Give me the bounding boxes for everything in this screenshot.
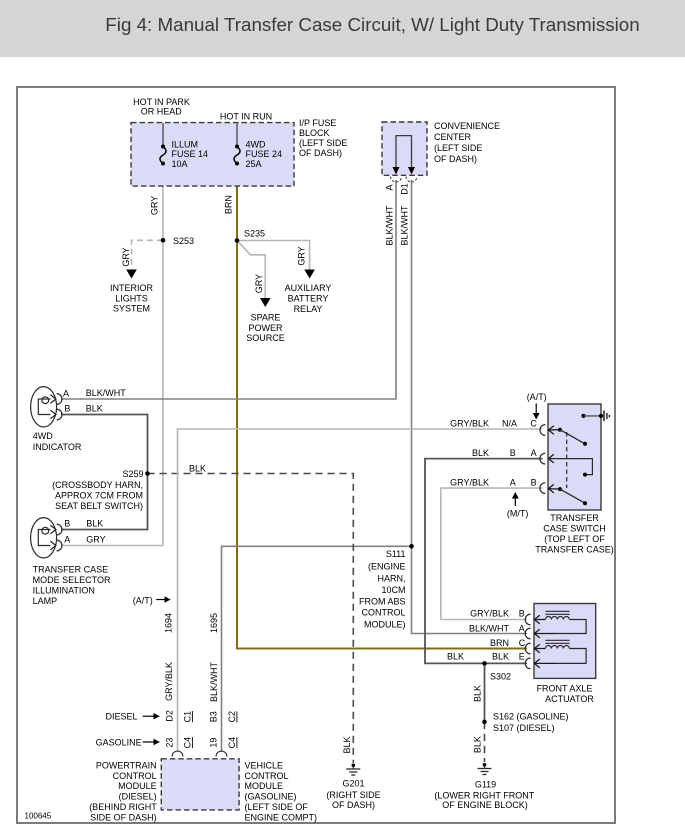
4WD indicator filament path xyxy=(38,399,50,415)
svg-text:G201: G201 xyxy=(342,779,364,789)
switch ground dot and lead xyxy=(581,414,585,418)
actuator solenoid 1 right loop to A xyxy=(556,620,586,634)
svg-text:FUSE 14: FUSE 14 xyxy=(172,149,209,159)
svg-text:GRY/BLK: GRY/BLK xyxy=(450,419,489,429)
actuator terminal C arrow xyxy=(534,644,545,653)
arrow down to spare power source xyxy=(260,298,271,307)
svg-text:BLK: BLK xyxy=(447,651,464,661)
lamp2 terminal B arc xyxy=(57,524,62,535)
wire BLK/WHT lamp A to convenience center terminal A xyxy=(61,180,396,399)
switch arm from C xyxy=(560,430,585,444)
actuator terminal C arc xyxy=(525,643,530,654)
svg-text:SOURCE: SOURCE xyxy=(246,333,285,343)
powertrain/vehicle control module box xyxy=(161,759,239,810)
wire BLK/WHT from S111 left then down to VCM pin B3 (ckt 1695) xyxy=(222,546,412,752)
actuator terminal B arc xyxy=(525,614,530,625)
switch terminal C arc xyxy=(540,425,545,436)
wire BLK dashed from S162 down to G119 xyxy=(484,722,486,762)
svg-text:GASOLINE: GASOLINE xyxy=(96,737,142,747)
wire GRY/BLK ckt 1694 from PCM pin up and right to switch terminal C xyxy=(178,429,543,752)
junction S253 xyxy=(161,238,166,243)
switch terminal A arc xyxy=(540,453,545,464)
convenience center box xyxy=(382,122,427,175)
svg-text:C1: C1 xyxy=(183,711,193,723)
switch terminal B arc xyxy=(540,483,545,494)
diagram border frame xyxy=(17,87,615,823)
svg-text:(CROSSBODY HARN,: (CROSSBODY HARN, xyxy=(52,480,143,490)
svg-text:POWERTRAIN: POWERTRAIN xyxy=(96,760,157,770)
svg-text:SPARE: SPARE xyxy=(251,312,281,322)
ground G119 xyxy=(483,763,487,767)
(M/T) arrow up at switch B xyxy=(514,499,516,507)
switch arm from B xyxy=(560,489,585,503)
svg-text:ENGINE COMPT): ENGINE COMPT) xyxy=(245,812,318,822)
svg-text:CENTER: CENTER xyxy=(434,132,472,142)
svg-text:(M/T): (M/T) xyxy=(507,508,529,518)
svg-text:B: B xyxy=(510,448,516,458)
svg-text:ILLUM: ILLUM xyxy=(172,139,199,149)
svg-text:4WD: 4WD xyxy=(246,139,267,149)
wire BLK switch terminal A left then down then right to S302 and actuator E xyxy=(425,459,543,664)
svg-text:RELAY: RELAY xyxy=(294,304,323,314)
lamp2 terminal A arc xyxy=(57,540,62,551)
svg-text:BLK: BLK xyxy=(473,736,483,753)
svg-text:BLK: BLK xyxy=(86,519,103,529)
svg-text:BRN: BRN xyxy=(223,195,233,214)
svg-text:BRN: BRN xyxy=(490,638,509,648)
svg-text:BATTERY: BATTERY xyxy=(288,294,329,304)
junction S259 xyxy=(145,471,150,476)
svg-text:MODE SELECTOR: MODE SELECTOR xyxy=(33,575,111,585)
svg-text:OF DASH): OF DASH) xyxy=(299,148,342,158)
actuator terminal A arc xyxy=(525,628,530,639)
wire GRY dashed from S253 left and down to interior lights arrow xyxy=(132,240,164,269)
arrow down conv center left leg xyxy=(393,167,400,175)
svg-text:ILLUMINATION: ILLUMINATION xyxy=(33,585,95,595)
svg-text:S259: S259 xyxy=(122,469,143,479)
svg-text:I/P FUSE: I/P FUSE xyxy=(299,118,336,128)
wire BLK S259 down to lamp2 B xyxy=(61,474,148,530)
actuator terminal B arrow xyxy=(534,615,545,624)
junction S235 xyxy=(235,238,240,243)
lamp2 terminal A arrow xyxy=(50,541,56,550)
svg-text:(A/T): (A/T) xyxy=(133,595,153,605)
svg-text:BLK/WHT: BLK/WHT xyxy=(384,205,394,246)
svg-text:OR HEAD: OR HEAD xyxy=(141,107,183,117)
svg-text:B: B xyxy=(64,519,70,529)
fuse 4WD FUSE 24 25A xyxy=(235,145,239,149)
4WD indicator lamp bulb xyxy=(31,387,57,427)
svg-text:OF DASH): OF DASH) xyxy=(332,800,375,810)
ground G201 xyxy=(352,764,356,768)
svg-text:GRY/BLK: GRY/BLK xyxy=(164,662,174,701)
svg-text:23: 23 xyxy=(164,738,174,748)
wire BRN vertical from fuse 24 through S235 down to y=648.5 then right to actuator C xyxy=(237,166,527,649)
svg-text:(LEFT SIDE: (LEFT SIDE xyxy=(434,143,482,153)
svg-text:MODULE: MODULE xyxy=(118,781,157,791)
PCM connector arc pin 1695 xyxy=(216,751,227,757)
svg-text:BLK: BLK xyxy=(189,463,206,473)
svg-text:OF ENGINE BLOCK): OF ENGINE BLOCK) xyxy=(442,800,528,810)
svg-text:C2: C2 xyxy=(227,711,237,723)
wire BLK/WHT from S111 down then right to actuator terminal A xyxy=(412,546,528,633)
svg-text:C4: C4 xyxy=(227,737,237,749)
svg-text:BLK: BLK xyxy=(492,651,509,661)
svg-text:C: C xyxy=(530,419,537,429)
actuator solenoid 2 core lines xyxy=(545,639,569,641)
svg-text:D1: D1 xyxy=(399,183,409,195)
svg-text:A: A xyxy=(531,448,537,458)
svg-text:BLOCK: BLOCK xyxy=(299,128,330,138)
switch C contact pivot dot xyxy=(558,428,562,432)
wire GRY vertical from fuse 14 through S253 down to lamp row xyxy=(162,166,164,546)
arrow down conv center right leg xyxy=(408,167,415,175)
svg-text:B: B xyxy=(519,609,525,619)
svg-text:CONTROL: CONTROL xyxy=(245,771,289,781)
lamp1 terminal A arrow xyxy=(50,395,56,404)
svg-text:19: 19 xyxy=(208,738,218,748)
wire BLK dashed from S259 right then down to G201 xyxy=(148,474,354,764)
actuator terminal E arrow xyxy=(534,659,556,668)
svg-text:(A/T): (A/T) xyxy=(527,392,547,402)
switch terminal A arrow xyxy=(548,454,554,463)
svg-text:N/A: N/A xyxy=(502,419,517,429)
lamp2 terminal B arrow xyxy=(50,525,56,534)
svg-text:G119: G119 xyxy=(475,780,496,790)
svg-text:B: B xyxy=(64,404,70,414)
svg-text:A: A xyxy=(510,478,516,488)
arrow down to auxiliary battery relay xyxy=(304,270,315,279)
svg-text:BLK: BLK xyxy=(473,685,483,702)
svg-text:INDICATOR: INDICATOR xyxy=(33,442,82,452)
svg-text:VEHICLE: VEHICLE xyxy=(245,760,284,770)
svg-text:(LEFT SIDE: (LEFT SIDE xyxy=(299,138,347,148)
lamp2 filament path xyxy=(38,530,50,546)
svg-text:10CM: 10CM xyxy=(381,585,405,595)
switch terminal C arrow xyxy=(548,426,560,435)
svg-text:GRY/BLK: GRY/BLK xyxy=(470,609,509,619)
svg-text:(BEHIND RIGHT: (BEHIND RIGHT xyxy=(89,802,157,812)
connector arc conv center D1 xyxy=(406,177,417,183)
transfer case mode selector illumination lamp bulb xyxy=(31,518,57,558)
svg-text:MODULE): MODULE) xyxy=(364,620,406,630)
svg-text:Fig 4: Manual Transfer Case Ci: Fig 4: Manual Transfer Case Circuit, W/ … xyxy=(105,14,639,35)
svg-text:1695: 1695 xyxy=(209,613,219,633)
svg-text:(DIESEL): (DIESEL) xyxy=(119,792,157,802)
svg-text:C: C xyxy=(519,638,526,648)
actuator solenoid 1 coil xyxy=(545,617,569,620)
svg-text:BLK: BLK xyxy=(472,448,489,458)
svg-text:HOT IN RUN: HOT IN RUN xyxy=(220,111,272,121)
svg-text:S253: S253 xyxy=(173,236,194,246)
svg-text:GRY: GRY xyxy=(86,535,105,545)
svg-text:SEAT BELT SWITCH): SEAT BELT SWITCH) xyxy=(55,501,143,511)
title bar xyxy=(0,0,685,57)
svg-text:1694: 1694 xyxy=(163,613,173,633)
svg-text:HARN,: HARN, xyxy=(377,574,405,584)
convenience center internal U path xyxy=(396,136,412,167)
svg-text:POWER: POWER xyxy=(248,323,283,333)
svg-text:TRANSFER CASE: TRANSFER CASE xyxy=(33,564,109,574)
PCM connector arc pin 1694 xyxy=(172,751,183,757)
wire BLK lamp1 B to S259 vertical xyxy=(61,415,148,474)
svg-text:(RIGHT SIDE: (RIGHT SIDE xyxy=(326,790,380,800)
transfer case switch box xyxy=(548,404,601,510)
svg-text:S107 (DIESEL): S107 (DIESEL) xyxy=(493,723,555,733)
svg-text:10A: 10A xyxy=(172,159,188,169)
svg-text:OF DASH): OF DASH) xyxy=(434,154,477,164)
svg-text:GRY: GRY xyxy=(149,196,159,215)
svg-text:FUSE 24: FUSE 24 xyxy=(246,149,283,159)
svg-text:BLK/WHT: BLK/WHT xyxy=(469,624,510,634)
(A/T) arrow down at switch C xyxy=(535,404,537,414)
fuse ILLUM FUSE 14 10A xyxy=(161,145,165,149)
switch B contact pivot dot xyxy=(558,487,562,491)
svg-text:(GASOLINE): (GASOLINE) xyxy=(245,792,297,802)
actuator solenoid 1 core lines xyxy=(545,610,569,612)
actuator terminal E arc xyxy=(525,658,530,669)
svg-text:INTERIOR: INTERIOR xyxy=(110,283,154,293)
svg-text:BLK/WHT: BLK/WHT xyxy=(86,388,127,398)
svg-text:DIESEL: DIESEL xyxy=(105,712,137,722)
svg-text:(TOP LEFT OF: (TOP LEFT OF xyxy=(544,534,605,544)
svg-text:GRY/BLK: GRY/BLK xyxy=(450,478,489,488)
connector arc conv center A xyxy=(391,177,402,183)
svg-text:CONTROL: CONTROL xyxy=(113,771,157,781)
svg-text:B: B xyxy=(531,478,537,488)
lamp1 terminal B arrow xyxy=(50,410,56,419)
svg-text:D2: D2 xyxy=(164,710,174,722)
wire BLK from S302 down to S162 xyxy=(484,663,486,722)
wire GRY lamp2 A right to GRY vertical xyxy=(61,545,163,547)
lamp2 filament loop xyxy=(42,527,49,534)
wire GRY/BLK switch terminal B left then down then right to actuator B xyxy=(441,488,543,619)
svg-text:CASE SWITCH: CASE SWITCH xyxy=(543,523,606,533)
svg-text:LAMP: LAMP xyxy=(33,596,58,606)
junction S302 xyxy=(482,661,487,666)
svg-text:S302: S302 xyxy=(490,672,511,682)
front axle actuator box xyxy=(534,604,596,679)
svg-text:S111: S111 xyxy=(386,549,406,559)
svg-text:HOT IN PARK: HOT IN PARK xyxy=(133,97,190,107)
svg-text:ACTUATOR: ACTUATOR xyxy=(545,694,594,704)
svg-text:CONTROL: CONTROL xyxy=(361,608,405,618)
svg-text:E: E xyxy=(519,651,525,661)
svg-text:C4: C4 xyxy=(183,737,193,749)
4WD indicator filament loop xyxy=(42,397,49,404)
lamp1 terminal A arc xyxy=(57,394,62,405)
DIESEL arrow right xyxy=(143,715,154,717)
svg-text:A: A xyxy=(384,184,394,190)
svg-text:TRANSFER: TRANSFER xyxy=(550,513,599,523)
svg-text:GRY: GRY xyxy=(121,247,131,266)
I/P fuse block box xyxy=(131,123,294,187)
svg-text:BLK/WHT: BLK/WHT xyxy=(209,662,219,703)
svg-text:CONVENIENCE: CONVENIENCE xyxy=(434,121,500,131)
junction S111 xyxy=(409,544,414,549)
svg-text:BLK: BLK xyxy=(342,736,352,753)
svg-text:4WD: 4WD xyxy=(33,431,54,441)
svg-text:(ENGINE: (ENGINE xyxy=(368,562,406,572)
svg-text:(LEFT SIDE OF: (LEFT SIDE OF xyxy=(245,802,309,812)
svg-text:LIGHTS: LIGHTS xyxy=(115,293,148,303)
wire GRY from S235 right then down to auxiliary battery relay arrow xyxy=(237,241,310,270)
svg-text:APPROX 7CM FROM: APPROX 7CM FROM xyxy=(55,490,143,500)
svg-text:BLK/WHT: BLK/WHT xyxy=(399,205,409,246)
svg-text:FROM ABS: FROM ABS xyxy=(359,596,406,606)
svg-text:S162 (GASOLINE): S162 (GASOLINE) xyxy=(493,712,569,722)
arrow down to interior lights system xyxy=(126,270,137,279)
svg-text:MODULE: MODULE xyxy=(245,781,284,791)
(A/T) arrow right (left area) xyxy=(156,599,164,601)
svg-text:A: A xyxy=(64,535,70,545)
svg-text:SIDE OF DASH): SIDE OF DASH) xyxy=(90,812,157,822)
lamp1 terminal B arc xyxy=(57,409,62,420)
svg-text:GRY: GRY xyxy=(254,274,264,293)
svg-text:GRY: GRY xyxy=(296,246,306,265)
switch A internal path xyxy=(548,459,592,475)
fuse 24 lead top xyxy=(236,123,238,146)
svg-text:A: A xyxy=(63,388,69,398)
actuator solenoid 2 right loop to E xyxy=(556,649,586,664)
GASOLINE arrow right xyxy=(143,741,154,743)
svg-text:AUXILIARY: AUXILIARY xyxy=(285,283,332,293)
actuator terminal A arrow xyxy=(534,629,556,638)
junction S162/S107 xyxy=(482,720,487,725)
svg-text:A: A xyxy=(519,624,525,634)
svg-text:(LOWER RIGHT FRONT: (LOWER RIGHT FRONT xyxy=(434,790,534,800)
svg-text:SYSTEM: SYSTEM xyxy=(113,304,150,314)
wire BLK/WHT convenience center D1 down to S111 xyxy=(411,180,413,546)
svg-text:100645: 100645 xyxy=(25,812,52,821)
switch internal ground symbol xyxy=(603,411,605,422)
svg-text:BLK: BLK xyxy=(86,404,103,414)
actuator solenoid 2 coil xyxy=(545,646,569,649)
switch terminal B arrow xyxy=(548,484,560,493)
svg-text:B3: B3 xyxy=(208,711,218,722)
fuse 14 lead top xyxy=(162,123,164,146)
svg-text:25A: 25A xyxy=(246,159,262,169)
svg-text:S235: S235 xyxy=(244,229,265,239)
wire GRY from S235 diagonal down to spare power source arrow xyxy=(239,242,266,298)
switch linkage dashed xyxy=(566,432,568,488)
svg-text:TRANSFER CASE): TRANSFER CASE) xyxy=(535,544,614,554)
svg-text:FRONT AXLE: FRONT AXLE xyxy=(537,684,593,694)
